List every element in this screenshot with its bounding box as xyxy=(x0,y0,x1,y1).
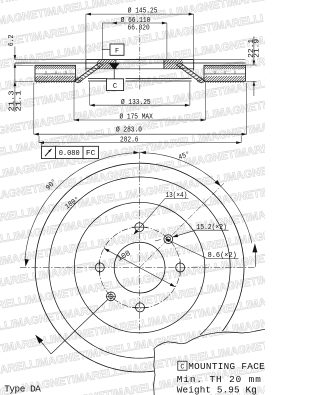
direction leader arrow xyxy=(51,299,108,354)
svg-text:MOUNTING FACE: MOUNTING FACE xyxy=(188,361,265,372)
ring inner hatch lip right xyxy=(197,77,204,83)
dim 21.3/21.1 xyxy=(14,63,16,112)
svg-text:Weight 5.95 Kg: Weight 5.95 Kg xyxy=(177,384,257,395)
front view centerline vertical xyxy=(139,153,141,334)
outer circle (O283) xyxy=(35,163,244,372)
dim 133.25 xyxy=(89,82,91,105)
svg-text:282.6: 282.6 xyxy=(120,136,139,144)
svg-text:Ø 145.25: Ø 145.25 xyxy=(128,7,158,16)
svg-text:6.2: 6.2 xyxy=(8,35,16,47)
bolt hole E xyxy=(176,263,185,272)
ring inner hatch lip left xyxy=(76,77,83,83)
bolt hole W xyxy=(95,263,104,272)
svg-text:21.1: 21.1 xyxy=(16,91,24,112)
datum F box xyxy=(102,49,110,51)
bolt hole center ticks xyxy=(131,226,147,228)
dim 175 MAX xyxy=(73,83,75,120)
bolt hole S xyxy=(136,303,145,312)
svg-text:8.6(×2): 8.6(×2) xyxy=(208,252,237,260)
vent vane ticks xyxy=(45,71,47,74)
45 deg radial centerline xyxy=(140,183,224,267)
svg-text:Ø 175 MAX: Ø 175 MAX xyxy=(120,112,154,121)
svg-text:21.9: 21.9 xyxy=(254,39,262,58)
break line xyxy=(154,329,265,395)
hat slope band right xyxy=(181,63,206,81)
svg-text:0.080: 0.080 xyxy=(59,150,80,158)
locating hole SW (15.2/8.6) xyxy=(107,292,116,301)
datum C box xyxy=(107,79,124,91)
svg-text:Ø 133.25: Ø 133.25 xyxy=(121,98,151,107)
hat flange hatch left xyxy=(97,60,116,69)
section centerline xyxy=(139,28,141,90)
friction ring left xyxy=(35,65,76,81)
bore wall right xyxy=(163,60,165,69)
hat top face line xyxy=(15,59,86,61)
arc arrows 90deg xyxy=(133,151,139,154)
FCF leader xyxy=(41,143,43,147)
front view centerline horizontal xyxy=(20,267,255,269)
datum C triangle xyxy=(109,63,120,69)
braking band inner circle xyxy=(49,177,230,358)
label C mounting face box xyxy=(178,361,187,370)
friction ring right xyxy=(204,65,245,81)
svg-text:15.2(×2): 15.2(×2) xyxy=(196,224,226,232)
svg-text:Ø 283.0: Ø 283.0 xyxy=(116,126,142,135)
svg-text:FC: FC xyxy=(86,150,96,158)
center bore (O66) xyxy=(114,242,165,293)
dim 66.110 line xyxy=(102,22,167,24)
hat wall right xyxy=(193,60,195,71)
dim 6.2 xyxy=(14,47,16,60)
SW hole center marks xyxy=(106,295,116,297)
dim 145.25 ext lines xyxy=(85,14,87,59)
svg-text:F: F xyxy=(115,48,119,56)
FCF runout box xyxy=(42,146,99,158)
dim 282.6 xyxy=(38,136,40,143)
bore wall left xyxy=(115,60,117,69)
flange bottom line xyxy=(15,62,246,64)
hat flange underside line xyxy=(86,68,194,70)
svg-text:C: C xyxy=(180,364,184,372)
hat skirt line 2 xyxy=(88,80,107,82)
svg-text:C: C xyxy=(113,83,117,91)
hat circle (O175) xyxy=(74,202,205,333)
arc arrow 45deg xyxy=(215,180,221,186)
dim 66.110 ext lines xyxy=(101,23,103,59)
dim 283.0 xyxy=(33,83,35,134)
arc end arrow 180deg xyxy=(25,259,29,267)
dim 22.1/21.9 xyxy=(253,36,255,65)
hat flange hatch right xyxy=(164,60,183,69)
dim 145.25 line xyxy=(86,13,194,15)
bolt circle (O108) xyxy=(99,227,180,308)
dim 108 xyxy=(104,248,175,287)
locating hole NE (15.2/8.6) xyxy=(164,235,173,244)
svg-text:Type DA: Type DA xyxy=(4,383,41,394)
arc end arrow 0deg xyxy=(254,252,256,267)
hat skirt line 1 xyxy=(88,77,107,79)
svg-text:Min. TH 20 mm: Min. TH 20 mm xyxy=(177,374,261,385)
svg-text:13(×4): 13(×4) xyxy=(166,192,188,200)
hat wall left xyxy=(85,60,87,71)
angular dim arc xyxy=(25,153,252,260)
svg-text:66.020: 66.020 xyxy=(128,24,151,32)
hat slope band left xyxy=(74,63,99,81)
bolt hole N xyxy=(135,223,144,232)
